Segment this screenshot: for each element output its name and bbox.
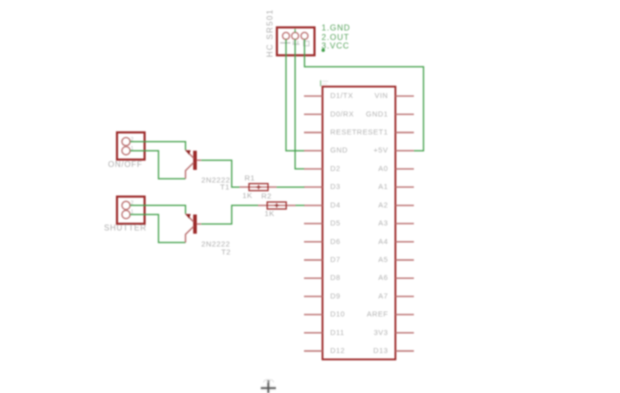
svg-text:GND1: GND1 <box>366 109 388 118</box>
pin D0/RX <box>304 109 354 118</box>
wire T2 base to R2 <box>201 205 258 224</box>
wire ON/OFF pin1 to T1 emitter <box>130 151 185 179</box>
pin AREF <box>367 310 414 319</box>
pin D6 <box>304 237 341 246</box>
pin D13 <box>373 346 414 355</box>
pin D11 <box>304 328 345 337</box>
svg-text:D2: D2 <box>330 164 340 173</box>
svg-text:D0/RX: D0/RX <box>330 109 354 118</box>
svg-text:D13: D13 <box>373 346 388 355</box>
label T2 <box>221 247 231 256</box>
pin D2 <box>304 164 341 173</box>
pin GND1 <box>366 109 414 118</box>
pin D7 <box>304 255 341 264</box>
svg-text:T1: T1 <box>220 182 230 191</box>
wire GND: J3 pin1 to U1 GND <box>286 39 304 150</box>
svg-text:RESET: RESET <box>330 128 357 137</box>
resistor R2 <box>258 202 296 209</box>
pin D3 <box>304 182 341 191</box>
transistor T1 2N2222 <box>186 150 202 179</box>
wire SHUTTER pin1 to T2 emitter <box>130 215 185 243</box>
label T1 <box>220 182 230 191</box>
pin D10 <box>304 310 345 319</box>
svg-text:R2: R2 <box>261 192 272 201</box>
pin D8 <box>304 273 341 282</box>
connector X1 ON/OFF <box>117 132 145 159</box>
label ON/OFF <box>108 160 142 169</box>
label 2N2222 (T2) <box>201 239 230 248</box>
svg-text:1.GND: 1.GND <box>322 24 351 33</box>
svg-text:1K: 1K <box>242 191 252 200</box>
net label 1 GND <box>322 24 351 33</box>
transistor T2 2N2222 <box>186 214 202 243</box>
svg-text:D3: D3 <box>330 182 340 191</box>
svg-text:GND: GND <box>330 146 348 155</box>
connector J3 HC-SR501 <box>277 27 315 55</box>
pin A5 <box>378 255 414 264</box>
svg-text:+5V: +5V <box>374 146 389 155</box>
label R2 <box>261 192 272 201</box>
svg-text:D8: D8 <box>330 273 340 282</box>
faint tick above U1 corner <box>321 80 329 86</box>
svg-text:D12: D12 <box>330 346 345 355</box>
svg-text:RESET1: RESET1 <box>357 128 388 137</box>
svg-text:3V3: 3V3 <box>374 328 388 337</box>
svg-text:A4: A4 <box>378 237 388 246</box>
svg-text:SHUTTER: SHUTTER <box>104 224 147 233</box>
svg-text:A5: A5 <box>378 255 388 264</box>
svg-text:A7: A7 <box>378 291 388 300</box>
resistor R1 <box>240 184 277 191</box>
svg-text:HC SR501: HC SR501 <box>266 9 275 58</box>
pin A4 <box>378 237 414 246</box>
label 1K (R1) <box>242 191 252 200</box>
wire R2 to U1 D4 <box>296 204 305 206</box>
pin RESET <box>304 128 357 137</box>
pin A6 <box>378 273 414 282</box>
wire T1 base to R1 <box>201 160 239 187</box>
pin A0 <box>378 164 414 173</box>
junction dot <box>322 49 325 52</box>
label R1 <box>245 173 256 182</box>
pin RESET1 <box>357 128 414 137</box>
svg-text:D7: D7 <box>330 255 340 264</box>
pin A3 <box>378 219 414 228</box>
svg-text:A6: A6 <box>378 273 388 282</box>
net label 2 OUT <box>322 33 350 42</box>
wire VCC: J3 pin3 to U1 +5V <box>305 39 424 150</box>
svg-text:D4: D4 <box>330 200 340 209</box>
pin 3V3 <box>374 328 414 337</box>
svg-text:D10: D10 <box>330 310 345 319</box>
origin crosshair <box>261 379 276 393</box>
svg-text:A2: A2 <box>378 200 388 209</box>
svg-text:1K: 1K <box>265 209 275 218</box>
svg-text:VIN: VIN <box>375 91 389 100</box>
svg-text:3.VCC: 3.VCC <box>322 42 350 51</box>
pin D9 <box>304 291 341 300</box>
svg-text:R1: R1 <box>245 173 256 182</box>
pin D5 <box>304 219 341 228</box>
pin D12 <box>304 346 345 355</box>
net label 3 VCC <box>322 42 350 51</box>
pin A2 <box>378 200 414 209</box>
pin VIN <box>375 91 414 100</box>
svg-text:A3: A3 <box>378 219 388 228</box>
label SHUTTER <box>104 224 147 233</box>
pin D4 <box>304 200 341 209</box>
label HC SR501 <box>266 9 275 58</box>
pin D1/TX <box>304 91 353 100</box>
pin A7 <box>378 291 414 300</box>
wire SHUTTER pin2 to T2 collector <box>130 205 185 213</box>
svg-text:D1/TX: D1/TX <box>330 91 353 100</box>
wire ON/OFF pin2 to T1 collector <box>130 142 185 150</box>
IC U1 Arduino body <box>323 87 396 360</box>
svg-text:2.OUT: 2.OUT <box>322 33 350 42</box>
svg-text:A1: A1 <box>378 182 388 191</box>
svg-text:D5: D5 <box>330 219 340 228</box>
pin +5V <box>374 146 414 155</box>
label 1K (R2) <box>265 209 275 218</box>
wire OUT: J3 pin2 to U1 D2 <box>295 39 304 169</box>
svg-text:A0: A0 <box>378 164 388 173</box>
pin A1 <box>378 182 414 191</box>
svg-text:D11: D11 <box>330 328 344 337</box>
svg-text:T2: T2 <box>221 247 231 256</box>
svg-text:AREF: AREF <box>367 310 389 319</box>
connector X2 SHUTTER <box>117 197 145 224</box>
svg-text:D6: D6 <box>330 237 340 246</box>
pin GND <box>304 146 348 155</box>
svg-text:ON/OFF: ON/OFF <box>108 160 142 169</box>
wire R1 to U1 D3 <box>277 186 305 188</box>
label 2N2222 (T1) <box>201 176 230 185</box>
svg-text:D9: D9 <box>330 291 340 300</box>
